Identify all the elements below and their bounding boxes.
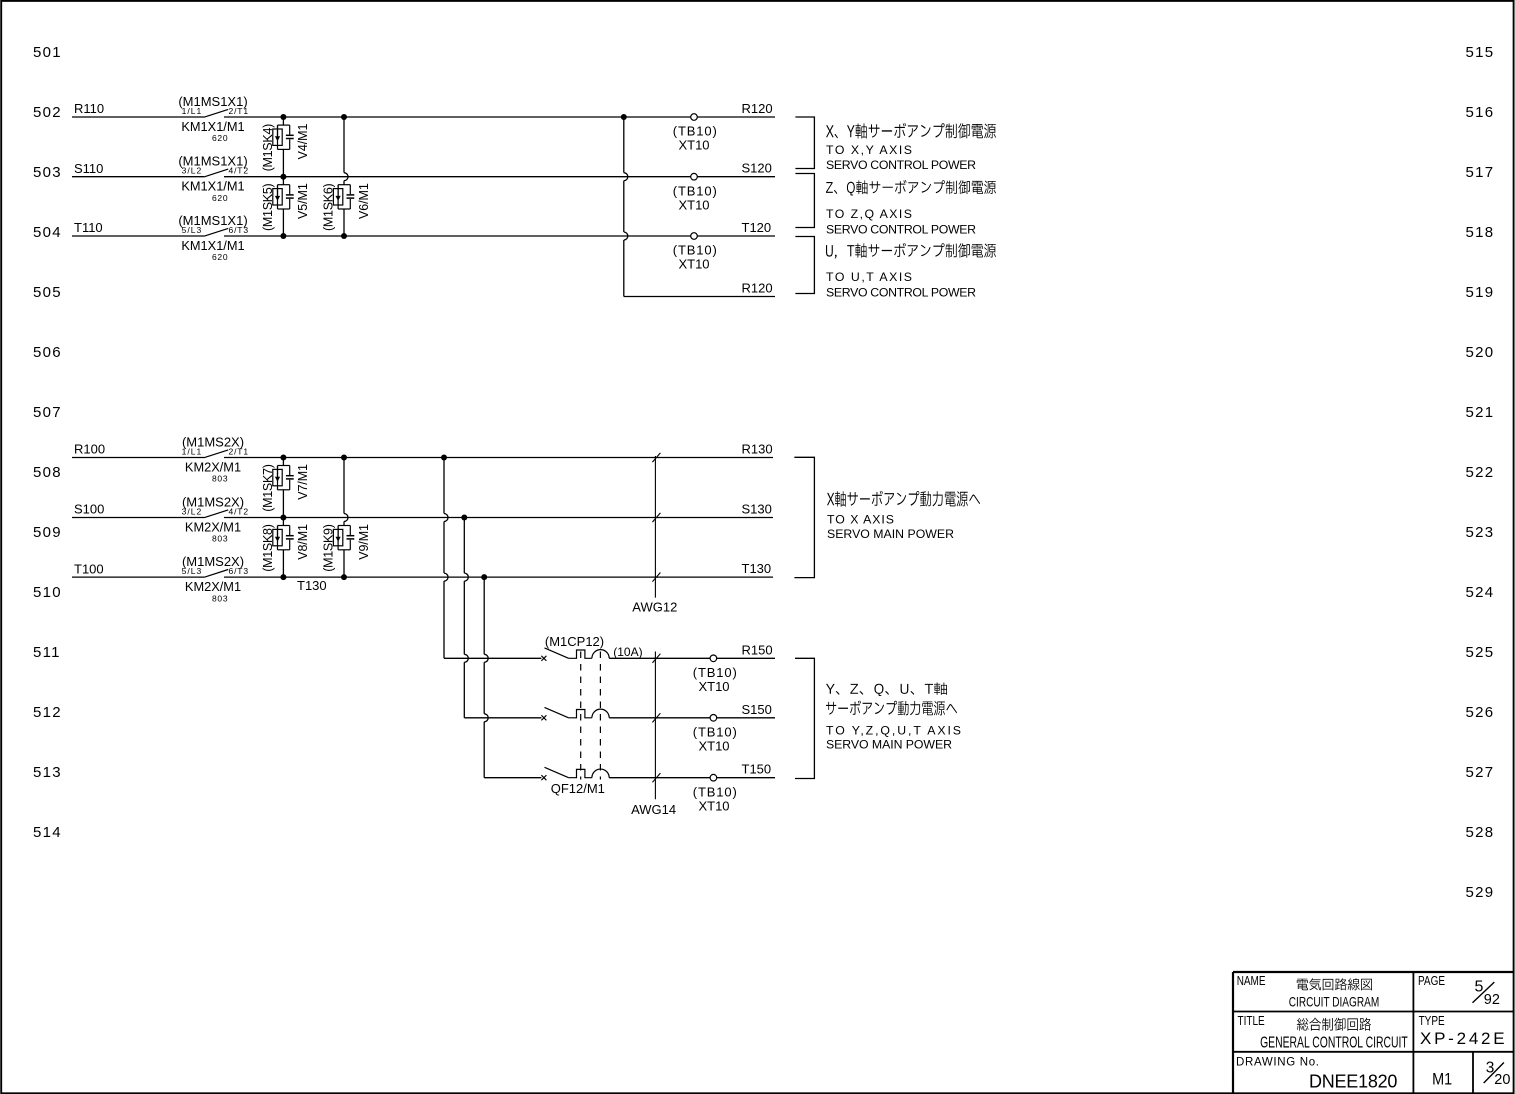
svg-text:(TB10): (TB10) [693, 665, 737, 680]
svg-text:XT10: XT10 [678, 138, 709, 153]
svg-text:620: 620 [212, 133, 228, 143]
svg-text:V9/M1: V9/M1 [357, 524, 371, 560]
svg-text:XT10: XT10 [678, 257, 709, 272]
svg-text:523: 523 [1466, 524, 1495, 541]
svg-text:S100: S100 [74, 502, 104, 517]
svg-text:XT10: XT10 [678, 197, 709, 212]
terminal XT10 circle [710, 655, 717, 662]
terminal XT10 circle [710, 715, 717, 722]
group bracket X-Y axis [795, 117, 814, 169]
breaker thermal element [569, 650, 592, 658]
junction node T110/V6 [341, 233, 347, 239]
svg-text:XT10: XT10 [698, 798, 729, 813]
svg-text:524: 524 [1466, 584, 1495, 601]
svg-text:506: 506 [33, 344, 62, 361]
svg-text:TO Y,Z,Q,U,T AXIS: TO Y,Z,Q,U,T AXIS [826, 724, 961, 738]
junction node R100/V7 [280, 455, 286, 461]
svg-text:XT10: XT10 [698, 679, 729, 694]
annotation JP X,Y axis servo control power [826, 123, 996, 139]
svg-text:TYPE: TYPE [1419, 1015, 1445, 1028]
wire S100 to S130 [224, 517, 773, 519]
gauge slash AWG14 [652, 713, 660, 722]
svg-text:AWG14: AWG14 [631, 802, 676, 817]
sheet fraction slash [1484, 1063, 1504, 1084]
svg-text:(TB10): (TB10) [693, 784, 737, 799]
svg-text:1/L1: 1/L1 [182, 106, 202, 116]
wire crossover hop drop over S110 [624, 173, 628, 181]
wire V6 feed upper [343, 117, 345, 173]
wire V5 bottom feed [282, 209, 284, 236]
hop S100-drop over T100 [464, 573, 468, 581]
wire V9 bottom feed [343, 550, 345, 577]
wire R110 to R120 [224, 116, 775, 118]
svg-text:509: 509 [33, 524, 62, 541]
svg-text:V4/M1: V4/M1 [296, 124, 310, 160]
surge absorber V5/M1 (M1SK5) [273, 185, 294, 209]
svg-text:TO X AXIS: TO X AXIS [827, 513, 894, 527]
svg-text:T120: T120 [742, 220, 772, 235]
svg-text:6/T3: 6/T3 [229, 566, 249, 576]
breaker magnetic element [592, 769, 609, 778]
svg-text:S130: S130 [742, 502, 772, 517]
svg-text:92: 92 [1484, 992, 1500, 1008]
title JP general control circuit [1297, 1018, 1371, 1031]
svg-text:SERVO CONTROL POWER: SERVO CONTROL POWER [826, 286, 976, 300]
svg-text:526: 526 [1466, 704, 1495, 721]
gauge slash AWG14 [652, 654, 660, 663]
hop T100-drop over S150 row [484, 714, 488, 722]
group bracket U-T axis [795, 237, 814, 294]
terminal XT10 circle [710, 774, 717, 781]
svg-text:4/T2: 4/T2 [229, 506, 249, 516]
wire R100 to R130 [224, 457, 773, 459]
svg-text:3/L2: 3/L2 [182, 506, 202, 516]
svg-text:M1: M1 [1432, 1070, 1452, 1088]
svg-text:(M1SK7): (M1SK7) [261, 464, 275, 512]
svg-text:T100: T100 [74, 561, 104, 576]
svg-text:R130: R130 [742, 442, 773, 457]
svg-text:501: 501 [33, 44, 62, 61]
svg-text:3/L2: 3/L2 [182, 166, 202, 176]
svg-text:KM1X1/M1: KM1X1/M1 [181, 119, 244, 134]
svg-text:521: 521 [1466, 404, 1495, 421]
svg-text:V6/M1: V6/M1 [357, 183, 371, 219]
svg-text:KM2X/M1: KM2X/M1 [185, 579, 241, 594]
svg-text:R120: R120 [742, 281, 773, 296]
svg-text:527: 527 [1466, 764, 1495, 781]
svg-text:T150: T150 [742, 762, 772, 777]
wire V7 top feed [282, 458, 284, 466]
surge absorber V6/M1 (M1SK6) [333, 185, 354, 209]
svg-text:NAME: NAME [1237, 975, 1266, 988]
wire gauge marker line AWG14 [654, 652, 656, 800]
wire bottom R120 [624, 296, 775, 298]
svg-text:KM1X1/M1: KM1X1/M1 [181, 179, 244, 194]
svg-text:2/T1: 2/T1 [229, 446, 249, 456]
svg-text:803: 803 [212, 474, 228, 484]
wire R100 drop seg2 [443, 522, 445, 574]
contact blade KM2X/M1 [204, 570, 228, 578]
wire T100 left segment [72, 576, 204, 578]
junction node R100/V9 [341, 455, 347, 461]
annotation JP U,T axis servo control power [826, 243, 996, 259]
wire breaker to terminal [609, 717, 775, 719]
wire V5 top feed [282, 177, 284, 185]
svg-text:(M1SK8): (M1SK8) [261, 524, 275, 572]
surge absorber V9/M1 (M1SK9) [333, 526, 354, 550]
gauge slash AWG14 [652, 773, 660, 782]
svg-text:TO U,T AXIS: TO U,T AXIS [826, 270, 912, 284]
breaker magnetic element [592, 709, 609, 718]
breaker linkage dashed line 1 [580, 652, 582, 780]
wire T110 to T120 [224, 235, 775, 237]
breaker magnetic element [592, 650, 609, 659]
wire V4 top feed [282, 117, 284, 125]
junction node R110/drop [621, 114, 627, 120]
annotation JP Z,Q axis servo control power [826, 180, 996, 196]
surge absorber V7/M1 (M1SK7) [273, 466, 294, 490]
svg-text:511: 511 [33, 644, 61, 661]
svg-text:T130: T130 [297, 578, 327, 593]
svg-text:R150: R150 [742, 642, 773, 657]
svg-text:503: 503 [33, 164, 62, 181]
svg-text:CIRCUIT DIAGRAM: CIRCUIT DIAGRAM [1289, 994, 1379, 1010]
wire S100 drop seg2 [463, 581, 465, 654]
svg-text:T110: T110 [74, 220, 103, 235]
breaker linkage dashed line 2 [599, 652, 601, 780]
svg-text:529: 529 [1466, 884, 1495, 901]
svg-text:SERVO MAIN POWER: SERVO MAIN POWER [827, 527, 954, 541]
wire to breaker pole [484, 777, 541, 779]
gauge slash AWG12 [652, 453, 660, 462]
annotation JP Y,Z,Q,U,T axis line1 [826, 683, 947, 697]
svg-text:6/T3: 6/T3 [229, 225, 249, 235]
contact blade KM1X1/M1 [204, 228, 228, 236]
svg-text:(TB10): (TB10) [693, 724, 737, 739]
junction node T100/V9 [341, 574, 347, 580]
wire V4 bottom feed [282, 149, 284, 176]
contact blade KM2X/M1 [204, 510, 228, 518]
wire to breaker pole [444, 657, 541, 659]
svg-text:KM2X/M1: KM2X/M1 [185, 520, 241, 535]
page fraction slash [1473, 982, 1495, 1003]
contact blade KM1X1/M1 [204, 109, 228, 117]
wire S100 drop seg1 [463, 518, 465, 574]
svg-text:502: 502 [33, 104, 62, 121]
svg-text:507: 507 [33, 404, 62, 421]
breaker thermal element [569, 769, 592, 777]
svg-text:620: 620 [212, 252, 228, 262]
svg-text:525: 525 [1466, 644, 1495, 661]
svg-text:504: 504 [33, 224, 62, 241]
contact blade KM1X1/M1 [204, 169, 228, 177]
wire S100 drop seg3 [463, 662, 465, 718]
wire R110 drop middle [623, 181, 625, 232]
breaker pole terminal x mark [541, 775, 546, 780]
junction node T100/drop [481, 574, 487, 580]
annotation JP X axis servo main power [827, 491, 980, 507]
svg-text:V8/M1: V8/M1 [296, 524, 310, 560]
junction node R110/V4 [280, 114, 286, 120]
svg-text:(M1SK5): (M1SK5) [261, 183, 275, 231]
title block frame [1233, 972, 1514, 1094]
svg-text:(TB10): (TB10) [673, 124, 717, 139]
wire crossover hop V9 feed over S100 [344, 514, 348, 522]
wire breaker to terminal [609, 657, 775, 659]
hop S100-drop over R150 row [464, 654, 468, 662]
svg-text:DNEE1820: DNEE1820 [1309, 1071, 1397, 1091]
junction node R110/V6 [341, 114, 347, 120]
breaker blade [545, 648, 569, 658]
wire V9 feed upper [343, 458, 345, 514]
svg-text:520: 520 [1466, 344, 1495, 361]
hop T100-drop over R150 row [484, 654, 488, 662]
junction node S100/drop [461, 515, 467, 521]
wire T100 to T130 [224, 576, 773, 578]
wire V7 bottom feed [282, 490, 284, 518]
svg-text:515: 515 [1466, 44, 1495, 61]
svg-text:510: 510 [33, 584, 62, 601]
wire T110 left segment [72, 235, 204, 237]
breaker thermal element [569, 710, 592, 718]
svg-text:528: 528 [1466, 824, 1495, 841]
wire T100 drop seg1 [483, 577, 485, 654]
svg-text:TO Z,Q AXIS: TO Z,Q AXIS [826, 207, 912, 221]
junction node R100/drop [441, 455, 447, 461]
terminal XT10 circle S120 [691, 173, 698, 180]
svg-text:V7/M1: V7/M1 [296, 464, 310, 500]
wire S110 to S120 [224, 176, 775, 178]
svg-text:KM2X/M1: KM2X/M1 [185, 460, 241, 475]
svg-text:GENERAL CONTROL CIRCUIT: GENERAL CONTROL CIRCUIT [1260, 1033, 1408, 1051]
title JP circuit diagram [1297, 978, 1372, 990]
surge absorber V8/M1 (M1SK8) [273, 526, 294, 550]
svg-text:KM1X1/M1: KM1X1/M1 [181, 238, 244, 253]
wire to breaker pole [464, 717, 541, 719]
svg-text:(M1SK4): (M1SK4) [261, 124, 275, 172]
svg-text:TITLE: TITLE [1238, 1015, 1266, 1028]
breaker blade [545, 707, 569, 717]
junction node S110/V4-V5 [280, 174, 286, 180]
terminal XT10 circle T120 [691, 233, 698, 240]
group bracket Z-Q axis [795, 174, 814, 228]
annotation JP servo main power line2 [826, 701, 957, 716]
svg-text:518: 518 [1466, 224, 1495, 241]
svg-text:512: 512 [33, 704, 62, 721]
wire V9 feed lower [343, 522, 345, 526]
svg-text:S150: S150 [742, 702, 772, 717]
gauge slash AWG12 [652, 513, 660, 522]
junction node S100/V7-V8 [280, 515, 286, 521]
hop R100-drop over T100 [444, 573, 448, 581]
hop R100-drop over S100 [444, 514, 448, 522]
wire R110 drop upper [623, 117, 625, 173]
svg-text:S120: S120 [742, 161, 772, 176]
svg-text:803: 803 [212, 593, 228, 603]
svg-text:620: 620 [212, 193, 228, 203]
svg-text:TO X,Y AXIS: TO X,Y AXIS [826, 143, 912, 157]
svg-text:(10A): (10A) [613, 645, 642, 659]
svg-text:(M1CP12): (M1CP12) [545, 634, 604, 649]
svg-text:V5/M1: V5/M1 [296, 183, 310, 219]
svg-text:(TB10): (TB10) [673, 183, 717, 198]
wire V6 bottom feed [343, 209, 345, 236]
svg-text:AWG12: AWG12 [632, 599, 677, 614]
breaker blade [545, 767, 569, 777]
svg-text:4/T2: 4/T2 [229, 166, 249, 176]
wire R110 drop lower [623, 240, 625, 297]
svg-text:R100: R100 [74, 442, 105, 457]
svg-text:SERVO CONTROL POWER: SERVO CONTROL POWER [826, 158, 976, 172]
svg-text:(M1SK6): (M1SK6) [322, 183, 336, 231]
wire S110 left segment [72, 176, 204, 178]
svg-text:XT10: XT10 [698, 738, 729, 753]
wire gauge marker line AWG12 [654, 456, 656, 598]
svg-text:(TB10): (TB10) [673, 243, 717, 258]
svg-text:508: 508 [33, 464, 62, 481]
wire V8 top feed [282, 518, 284, 526]
svg-text:516: 516 [1466, 104, 1495, 121]
svg-text:505: 505 [33, 284, 62, 301]
svg-text:R120: R120 [742, 101, 773, 116]
wire V8 bottom feed [282, 550, 284, 577]
gauge slash AWG12 [652, 573, 660, 582]
terminal XT10 circle R120 [691, 114, 698, 121]
group bracket Y-T axis main power [795, 658, 814, 778]
svg-text:SERVO MAIN POWER: SERVO MAIN POWER [826, 738, 952, 752]
breaker pole terminal x mark [541, 656, 546, 661]
group bracket X axis main power [794, 457, 814, 577]
svg-text:5/L3: 5/L3 [182, 225, 202, 235]
svg-text:803: 803 [212, 534, 228, 544]
svg-text:2/T1: 2/T1 [229, 106, 249, 116]
svg-text:DRAWING No.: DRAWING No. [1236, 1057, 1319, 1069]
svg-text:S110: S110 [74, 161, 103, 176]
wire crossover hop V6 feed over S110 [344, 173, 348, 181]
svg-text:514: 514 [33, 824, 62, 841]
junction node T100/V8 [280, 574, 286, 580]
svg-text:T130: T130 [742, 561, 772, 576]
wire V6 feed lower [343, 181, 345, 185]
contact blade KM2X/M1 [204, 450, 228, 458]
svg-text:517: 517 [1466, 164, 1495, 181]
svg-text:513: 513 [33, 764, 62, 781]
wire R100 left segment [72, 457, 204, 459]
wire T100 drop seg2 [483, 662, 485, 714]
svg-text:519: 519 [1466, 284, 1495, 301]
svg-text:522: 522 [1466, 464, 1495, 481]
wire R110 left segment [72, 116, 204, 118]
breaker pole terminal x mark [541, 715, 546, 720]
svg-text:QF12/M1: QF12/M1 [551, 781, 605, 796]
wire R100 drop seg1 [443, 458, 445, 514]
svg-text:(M1SK9): (M1SK9) [322, 524, 336, 572]
svg-text:SERVO CONTROL POWER: SERVO CONTROL POWER [826, 223, 976, 237]
wire S100 left segment [72, 517, 204, 519]
svg-text:5/L3: 5/L3 [182, 566, 202, 576]
svg-text:1/L1: 1/L1 [182, 446, 202, 456]
junction node T110/V5 [280, 233, 286, 239]
svg-text:R110: R110 [74, 101, 104, 116]
wire R100 drop seg3 [443, 581, 445, 658]
surge absorber V4/M1 (M1SK4) [273, 125, 294, 149]
wire breaker to terminal [609, 777, 775, 779]
wire crossover hop drop over T110 [624, 232, 628, 240]
wire T100 drop seg3 [483, 722, 485, 778]
svg-text:PAGE: PAGE [1418, 975, 1445, 988]
svg-text:20: 20 [1494, 1072, 1510, 1088]
